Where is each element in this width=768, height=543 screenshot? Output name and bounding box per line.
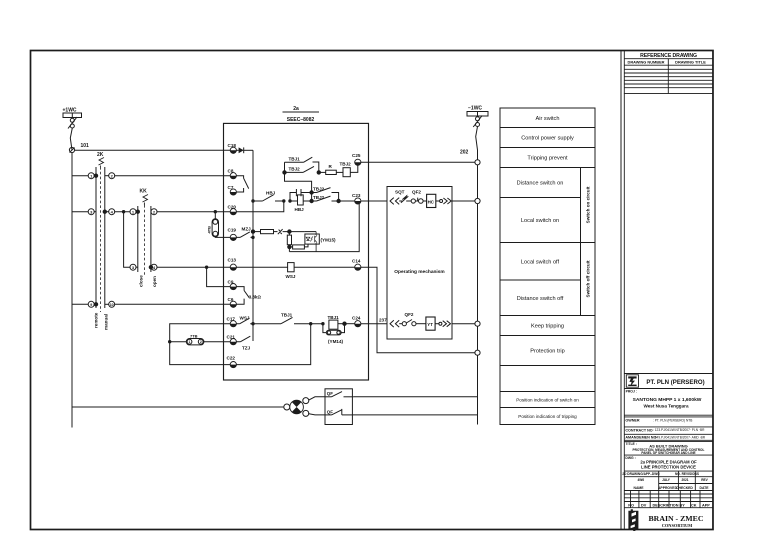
info rows bbox=[624, 415, 713, 471]
svg-text:QF: QF bbox=[327, 391, 333, 396]
svg-text:DATE: DATE bbox=[700, 486, 710, 490]
svg-text:West Nusa Tenggara: West Nusa Tenggara bbox=[643, 403, 688, 408]
svg-text:REV: REV bbox=[701, 478, 708, 482]
svg-text:C23: C23 bbox=[352, 193, 361, 198]
svg-text:QF2: QF2 bbox=[405, 312, 414, 317]
svg-text:TBJ2: TBJ2 bbox=[340, 162, 352, 167]
wire lamp to QF box lower bbox=[308, 414, 325, 415]
node YT bus junction bbox=[475, 321, 480, 326]
resistor lower to YM15 bbox=[289, 244, 308, 249]
svg-text:close: close bbox=[139, 275, 144, 287]
terminal C22 bbox=[227, 356, 237, 368]
optocoupler YM15 bbox=[305, 232, 319, 252]
svg-text:SQT: SQT bbox=[395, 189, 405, 194]
svg-text:TITLE :: TITLE : bbox=[625, 442, 637, 446]
svg-text:: 049.PJ/041/W.NTB/2007· AMD ·: : 049.PJ/041/W.NTB/2007· AMD ·BR bbox=[653, 436, 706, 440]
wire C17 row to left loop bbox=[170, 324, 231, 365]
svg-text:HBJ: HBJ bbox=[295, 207, 305, 212]
wire lamp row bbox=[72, 406, 284, 408]
node C13 branch junction bbox=[205, 266, 208, 269]
wire C25 to right bus bbox=[361, 161, 475, 163]
svg-text:PROJ :: PROJ : bbox=[626, 389, 637, 393]
svg-text:Switch off circuit: Switch off circuit bbox=[586, 260, 591, 297]
svg-text:APP: APP bbox=[702, 503, 710, 507]
QF NC contact bbox=[325, 409, 352, 415]
plug chevrons bottom bbox=[390, 320, 399, 327]
switch 2K bars bbox=[96, 167, 105, 312]
switch KK bars bbox=[138, 205, 151, 276]
svg-text:LINE PROTECTION DEVICE: LINE PROTECTION DEVICE bbox=[641, 465, 696, 470]
indicator lamp bbox=[290, 400, 304, 414]
svg-text:C25: C25 bbox=[352, 153, 361, 158]
title strip divider bbox=[620, 51, 622, 530]
svg-text:237: 237 bbox=[379, 318, 387, 323]
wire QF NO to right bus bbox=[353, 396, 477, 398]
svg-text:CK: CK bbox=[691, 503, 697, 507]
node C14 bus junction bbox=[475, 350, 480, 355]
PLN logo bbox=[628, 376, 636, 386]
svg-text:NAME: NAME bbox=[634, 486, 645, 490]
svg-text:−1WC: −1WC bbox=[468, 106, 482, 112]
svg-text:KK: KK bbox=[140, 189, 148, 195]
svg-text:2021: 2021 bbox=[681, 478, 688, 482]
contact C8-C7 bbox=[236, 176, 249, 192]
wire 101 to C18 bbox=[75, 149, 231, 151]
right bus vertical bbox=[477, 160, 479, 425]
wire QF NC to right bus bbox=[352, 414, 477, 416]
svg-text:4TB: 4TB bbox=[207, 226, 212, 234]
svg-text:(YM15): (YM15) bbox=[321, 237, 337, 242]
svg-text:DRAWING TITLE: DRAWING TITLE bbox=[675, 60, 706, 65]
switch 2K spring symbol bbox=[99, 158, 105, 168]
terminal C6 bbox=[228, 297, 237, 307]
svg-text:TBJ2: TBJ2 bbox=[289, 166, 301, 171]
svg-text:C14: C14 bbox=[352, 259, 361, 264]
reference drawing table bbox=[624, 51, 713, 530]
terminal block 4TB bbox=[212, 210, 230, 237]
KK contact 1-2 row bbox=[130, 209, 230, 215]
relay coil WSJ bbox=[236, 263, 355, 272]
svg-text:CONSORTIUM: CONSORTIUM bbox=[662, 523, 693, 528]
plug chevrons top bbox=[390, 198, 399, 205]
terminal C18 bbox=[228, 143, 237, 153]
contact C9-C6 bbox=[236, 287, 249, 305]
svg-text:REFERENCE DRAWING: REFERENCE DRAWING bbox=[640, 53, 697, 59]
protection device box bbox=[224, 123, 369, 380]
svg-text:QF: QF bbox=[327, 410, 333, 415]
wire MZJ resistor row bbox=[251, 229, 305, 234]
wire internal vertical bbox=[252, 150, 254, 336]
label 2a / SEEC-8082 bbox=[287, 106, 315, 123]
wire YM15 return rail to C23 bbox=[289, 204, 359, 252]
svg-text:YT: YT bbox=[427, 322, 433, 327]
svg-text:HBJ: HBJ bbox=[266, 191, 276, 196]
svg-text:2K: 2K bbox=[97, 152, 104, 158]
diode D1 bbox=[236, 147, 253, 153]
svg-text:TBJ1: TBJ1 bbox=[289, 156, 301, 161]
svg-text:DESCRIPTION: DESCRIPTION bbox=[653, 503, 679, 507]
svg-text:+1WC: +1WC bbox=[63, 108, 77, 114]
relay contacts TBJ2 pair to C23 bbox=[310, 188, 355, 203]
svg-text:PT. PLN (PERSERO): PT. PLN (PERSERO) bbox=[646, 379, 704, 386]
approval table bbox=[624, 471, 713, 508]
wire TBJ link down bbox=[285, 172, 312, 192]
svg-text:DWG :: DWG : bbox=[625, 456, 635, 460]
function label table bbox=[500, 108, 595, 425]
lamp connector circle bbox=[284, 404, 290, 410]
svg-text:MZJ: MZJ bbox=[242, 227, 252, 232]
svg-text:101: 101 bbox=[81, 143, 90, 149]
svg-text:4W6: 4W6 bbox=[638, 478, 645, 482]
wire YT to right bus bbox=[452, 323, 475, 325]
svg-text:open: open bbox=[152, 276, 157, 287]
border frame bbox=[31, 51, 714, 530]
svg-text:QF2: QF2 bbox=[412, 189, 421, 194]
svg-text:2: 2 bbox=[200, 340, 202, 344]
terminal C7 bbox=[228, 185, 237, 195]
node 7TB junction bbox=[168, 340, 171, 343]
svg-text:Tripping prevent: Tripping prevent bbox=[527, 156, 568, 162]
left bus vertical bbox=[71, 153, 73, 428]
wire C22 to TBJ1 row bbox=[236, 324, 311, 365]
svg-text:Distance switch on: Distance switch on bbox=[517, 181, 564, 187]
svg-text:Position indication of trippin: Position indication of tripping bbox=[518, 414, 577, 419]
wire branch to C9 bbox=[207, 267, 231, 286]
svg-text:NO. REVISIONS: NO. REVISIONS bbox=[675, 472, 699, 476]
svg-text:TBJ2: TBJ2 bbox=[313, 186, 325, 191]
svg-text:Protection trip: Protection trip bbox=[530, 349, 565, 355]
svg-text:7TB: 7TB bbox=[190, 333, 198, 338]
contactor coil HC bbox=[427, 194, 436, 207]
wire lamp to QF box bbox=[309, 397, 326, 400]
arrow out bottom bbox=[435, 321, 450, 327]
-1WC bus bar bbox=[467, 112, 488, 117]
svg-text:3.3kΩ: 3.3kΩ bbox=[249, 295, 262, 300]
wire KK drop bbox=[124, 212, 131, 268]
terminal block 7TB bbox=[170, 339, 231, 345]
svg-text:PANEL OF SWITCHGEAR AND LINE: PANEL OF SWITCHGEAR AND LINE bbox=[641, 451, 695, 455]
wire C20 to HBJ node bbox=[236, 201, 284, 212]
wire C14 to right bus bbox=[361, 267, 475, 353]
svg-text:(YM14): (YM14) bbox=[328, 339, 344, 344]
svg-text:Distance switch off: Distance switch off bbox=[517, 296, 564, 302]
svg-text:Operating mechanism: Operating mechanism bbox=[394, 269, 444, 275]
svg-text:Keep tripping: Keep tripping bbox=[531, 324, 564, 330]
svg-text:202: 202 bbox=[460, 150, 469, 156]
svg-text:Air switch: Air switch bbox=[536, 116, 560, 122]
svg-text:C19: C19 bbox=[228, 228, 237, 233]
wire C24 to mechanism bbox=[361, 323, 387, 325]
node C23 bus junction bbox=[475, 198, 480, 203]
relay contact TBJ1 parallel TBJ2 row bbox=[283, 157, 321, 174]
2K contact 3-4 row bbox=[72, 209, 130, 215]
wire C23 to mechanism bbox=[361, 200, 387, 202]
svg-text:C24: C24 bbox=[352, 316, 361, 321]
arrow out top bbox=[436, 198, 451, 204]
svg-text:: 123.PJ/041/W.NTB/2007· PLN ·: : 123.PJ/041/W.NTB/2007· PLN ·BR bbox=[653, 428, 705, 432]
svg-text:SANTONG MHPP 1 x 1,600kW: SANTONG MHPP 1 x 1,600kW bbox=[633, 397, 702, 403]
terminal C21 bbox=[227, 335, 237, 345]
svg-text:: PT. PLN (PERSERO) NTB: : PT. PLN (PERSERO) NTB bbox=[653, 418, 692, 422]
terminal C17 bbox=[227, 317, 237, 327]
trip coil YT bbox=[426, 317, 435, 330]
svg-text:2D DRAWING/APP–DWG: 2D DRAWING/APP–DWG bbox=[622, 472, 660, 476]
svg-text:9: 9 bbox=[90, 303, 92, 307]
svg-text:TBJ1: TBJ1 bbox=[281, 313, 293, 318]
node 202 junction bbox=[475, 160, 480, 165]
fuse switch on -1WC bbox=[473, 116, 482, 160]
svg-text:Local switch on: Local switch on bbox=[521, 218, 559, 224]
terminal C20 bbox=[228, 205, 237, 215]
svg-text:AMANDEMEN NO: AMANDEMEN NO bbox=[625, 436, 656, 440]
svg-text:APPROVED: APPROVED bbox=[658, 486, 678, 490]
+1WC bus bar bbox=[63, 113, 82, 118]
svg-text:Position indication of switch: Position indication of switch on bbox=[516, 398, 579, 403]
svg-text:OWNER: OWNER bbox=[625, 418, 639, 422]
terminal C14 bbox=[352, 259, 361, 271]
terminal C19 bbox=[228, 228, 237, 241]
QF NO contact bbox=[325, 392, 353, 397]
svg-text:1: 1 bbox=[188, 340, 190, 344]
svg-text:NO: NO bbox=[628, 503, 634, 507]
svg-text:Control power supply: Control power supply bbox=[521, 136, 574, 142]
company block PT PLN bbox=[624, 374, 713, 389]
fuse switch 1K on +1WC bbox=[68, 117, 77, 150]
terminal C8 bbox=[228, 169, 237, 179]
relay coil HBJ bbox=[290, 195, 312, 205]
svg-text:HC: HC bbox=[428, 199, 435, 204]
svg-text:Local switch off: Local switch off bbox=[521, 259, 560, 265]
svg-text:TBJ2: TBJ2 bbox=[313, 195, 325, 200]
terminal C24 bbox=[345, 316, 361, 327]
svg-text:Switch on circuit: Switch on circuit bbox=[586, 186, 591, 223]
svg-text:C22: C22 bbox=[227, 356, 236, 361]
KK drop wire junction bbox=[122, 210, 125, 213]
svg-text:10: 10 bbox=[110, 303, 114, 307]
operating mechanism box bbox=[387, 187, 452, 340]
svg-text:C13: C13 bbox=[228, 257, 237, 262]
capacitor parallel HBJ bbox=[290, 189, 312, 201]
svg-text:CONTRACT NO: CONTRACT NO bbox=[625, 428, 652, 432]
svg-text:DV: DV bbox=[641, 503, 647, 507]
svg-text:BRAIN - ZMEC: BRAIN - ZMEC bbox=[648, 514, 703, 523]
node 101 junction circle bbox=[69, 147, 74, 152]
KK contact 3-4 row bbox=[130, 264, 230, 270]
svg-text:WSJ: WSJ bbox=[240, 315, 250, 320]
QF auxiliary contact box bbox=[325, 389, 352, 425]
2K contact 1-2 row bbox=[72, 173, 230, 179]
svg-text:JULY: JULY bbox=[662, 478, 671, 482]
svg-text:SEEC–8082: SEEC–8082 bbox=[287, 117, 315, 123]
svg-text:TZJ: TZJ bbox=[242, 346, 251, 351]
svg-text:remote: remote bbox=[94, 312, 99, 328]
resistor vertical to YM15 bbox=[287, 232, 291, 252]
terminal C9 bbox=[228, 280, 237, 290]
svg-text:BY: BY bbox=[680, 503, 686, 507]
svg-text:manual: manual bbox=[104, 314, 109, 330]
svg-text:CHECKED: CHECKED bbox=[676, 486, 693, 490]
consortium logo bbox=[628, 509, 638, 531]
2K contact 9-10 row bbox=[72, 301, 230, 307]
svg-text:2a: 2a bbox=[293, 106, 299, 112]
terminal C25 bbox=[352, 153, 361, 165]
label: Air switch bbox=[516, 116, 590, 419]
lamp output circles bbox=[303, 398, 309, 404]
wire HC to right bus bbox=[452, 200, 475, 202]
svg-text:TBJ1: TBJ1 bbox=[328, 315, 340, 320]
switch KK spring symbol bbox=[143, 195, 149, 206]
svg-text:DRAWING NUMBER: DRAWING NUMBER bbox=[628, 60, 665, 65]
terminal C13 bbox=[228, 257, 237, 270]
svg-text:WSJ: WSJ bbox=[286, 274, 296, 279]
terminal C23 bbox=[352, 193, 361, 204]
